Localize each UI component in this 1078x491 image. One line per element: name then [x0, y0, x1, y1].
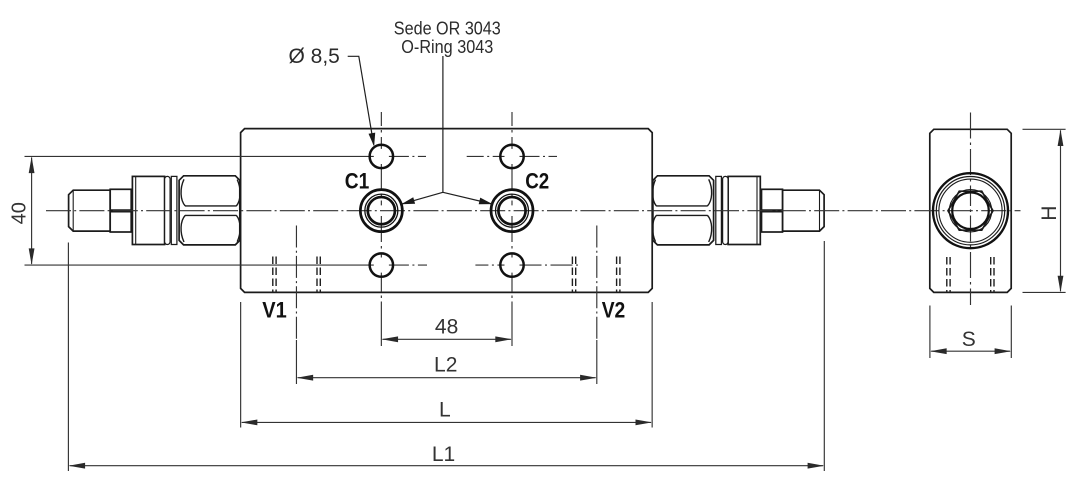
side view thread circle: [949, 190, 991, 232]
svg-text:V2: V2: [602, 297, 626, 322]
side view nut washer-face circle: [939, 179, 1002, 242]
svg-text:V1: V1: [262, 297, 287, 322]
dimension H line: [1060, 130, 1062, 291]
side view vertical centerline: [970, 113, 972, 207]
bottom hole row centerline segments: [389, 264, 427, 266]
side view hidden thread lines: [947, 257, 994, 292]
side view bore circle: [952, 192, 989, 229]
dimension L extension lines: [241, 302, 653, 428]
side view nut chamfer circle: [936, 177, 1004, 245]
svg-text:C2: C2: [525, 169, 549, 194]
svg-text:S: S: [962, 328, 976, 351]
svg-text:O-Ring 3043: O-Ring 3043: [401, 36, 493, 57]
valve block body: [241, 129, 653, 293]
top hole row line / 40-dim top extension: [25, 155, 374, 157]
port C1 circles: [360, 190, 402, 232]
dimension L2 line: [298, 377, 596, 379]
svg-text:H: H: [1038, 206, 1061, 221]
right cartridge valve: [653, 176, 825, 245]
dimension S extension lines: [930, 306, 1011, 359]
dimension L line: [242, 421, 651, 423]
top mounting hole left: [370, 145, 393, 168]
top hole row centerline segments: [389, 155, 426, 157]
svg-text:40: 40: [9, 202, 31, 224]
leader diameter 8,5: [348, 56, 374, 144]
svg-text:C1: C1: [345, 169, 370, 194]
bottom mounting hole right: [500, 253, 523, 276]
dimension 48 line: [383, 338, 511, 340]
bottom mounting hole left: [370, 253, 393, 276]
C1 column centerline: [380, 112, 382, 149]
svg-text:48: 48: [435, 316, 458, 339]
side view body: [930, 129, 1011, 292]
main horizontal centerline: [46, 210, 1021, 212]
dimension H extension lines: [1023, 129, 1066, 292]
top mounting hole right: [500, 145, 523, 168]
dimension 40 line: [31, 158, 33, 264]
side view hexagon: [948, 191, 993, 230]
left cartridge valve: [69, 176, 241, 245]
bottom hole row line / 40-dim bottom extension: [25, 264, 374, 266]
dimension S line: [931, 350, 1010, 352]
leader O-ring seats: [402, 56, 493, 204]
port C2 circles: [491, 190, 533, 232]
V2 column centerline: [596, 226, 598, 341]
svg-text:Ø 8,5: Ø 8,5: [289, 45, 340, 68]
side view nut outer circle: [933, 173, 1008, 248]
svg-text:L1: L1: [432, 443, 455, 466]
dimension L1 extension lines: [68, 241, 824, 471]
svg-text:L2: L2: [434, 354, 457, 377]
V1 column centerline: [295, 226, 297, 341]
V1 hidden thread lines: [273, 257, 321, 293]
svg-text:L: L: [439, 399, 451, 422]
C2 column centerline: [511, 112, 513, 149]
dimension L1 line: [70, 465, 824, 467]
V2 hidden thread lines: [572, 257, 620, 293]
